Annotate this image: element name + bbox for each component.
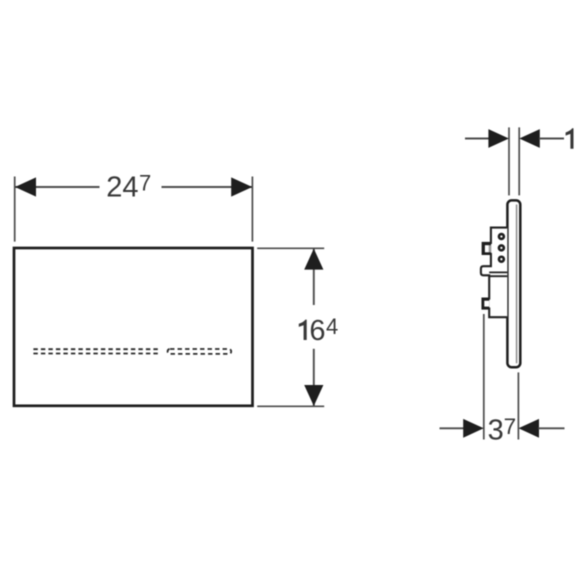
lower clip notch white [484, 301, 489, 307]
depth dim left tail [440, 427, 466, 429]
width dimension line [15, 186, 252, 188]
front plate outline [14, 248, 253, 406]
svg-text:24: 24 [106, 171, 138, 203]
extension line bottom of height dim [257, 405, 324, 407]
extension line left of width dim [14, 177, 16, 242]
screw head 3 [499, 257, 504, 262]
svg-text:7: 7 [504, 414, 517, 439]
upper clip notch white [485, 245, 489, 252]
side view glass plate [507, 200, 520, 367]
thickness dim left tail [465, 138, 490, 140]
width dimension text 24^7 [106, 170, 151, 203]
arrowhead left of thickness dim [488, 129, 509, 148]
thickness dim right tail [539, 138, 564, 140]
plate inner back-face line [516, 205, 518, 364]
arrowhead right of width dim [231, 177, 252, 196]
mechanism separator line A [489, 271, 507, 273]
dashed slot left [33, 349, 160, 353]
extension line left of thickness dim [508, 127, 510, 195]
depth dim right tail [538, 427, 564, 429]
arrowhead right of thickness dim [519, 129, 540, 148]
arrowhead left of depth dim [463, 419, 484, 438]
extension line top of height dim [257, 247, 324, 249]
dashed slot right [168, 349, 232, 354]
upper clip body [482, 242, 491, 254]
arrowhead top of height dim [304, 249, 323, 270]
height dimension line [313, 249, 315, 406]
screw head 1 [499, 234, 504, 239]
height dimension text 16^4 [299, 314, 338, 347]
mechanism separator line B [489, 275, 507, 277]
extension line left of depth dim [483, 314, 485, 440]
extension line right of depth dim [517, 372, 519, 439]
upper clip notch grey shade [489, 245, 492, 252]
mechanism body outline [481, 228, 507, 318]
extension line right of width dim [251, 177, 253, 242]
svg-text:4: 4 [326, 314, 338, 339]
arrowhead left of width dim [15, 177, 36, 196]
svg-text:6: 6 [309, 315, 325, 347]
depth dimension text 3^7 [488, 414, 517, 446]
arrowhead right of depth dim [519, 419, 540, 438]
arrowhead bottom of height dim [304, 385, 323, 406]
svg-text:3: 3 [488, 415, 504, 447]
extension line right of thickness dim [518, 127, 520, 195]
thickness dimension text 1 [566, 128, 574, 148]
screw head 2 [499, 245, 504, 250]
lower clip body [482, 298, 490, 309]
svg-text:7: 7 [139, 170, 151, 195]
